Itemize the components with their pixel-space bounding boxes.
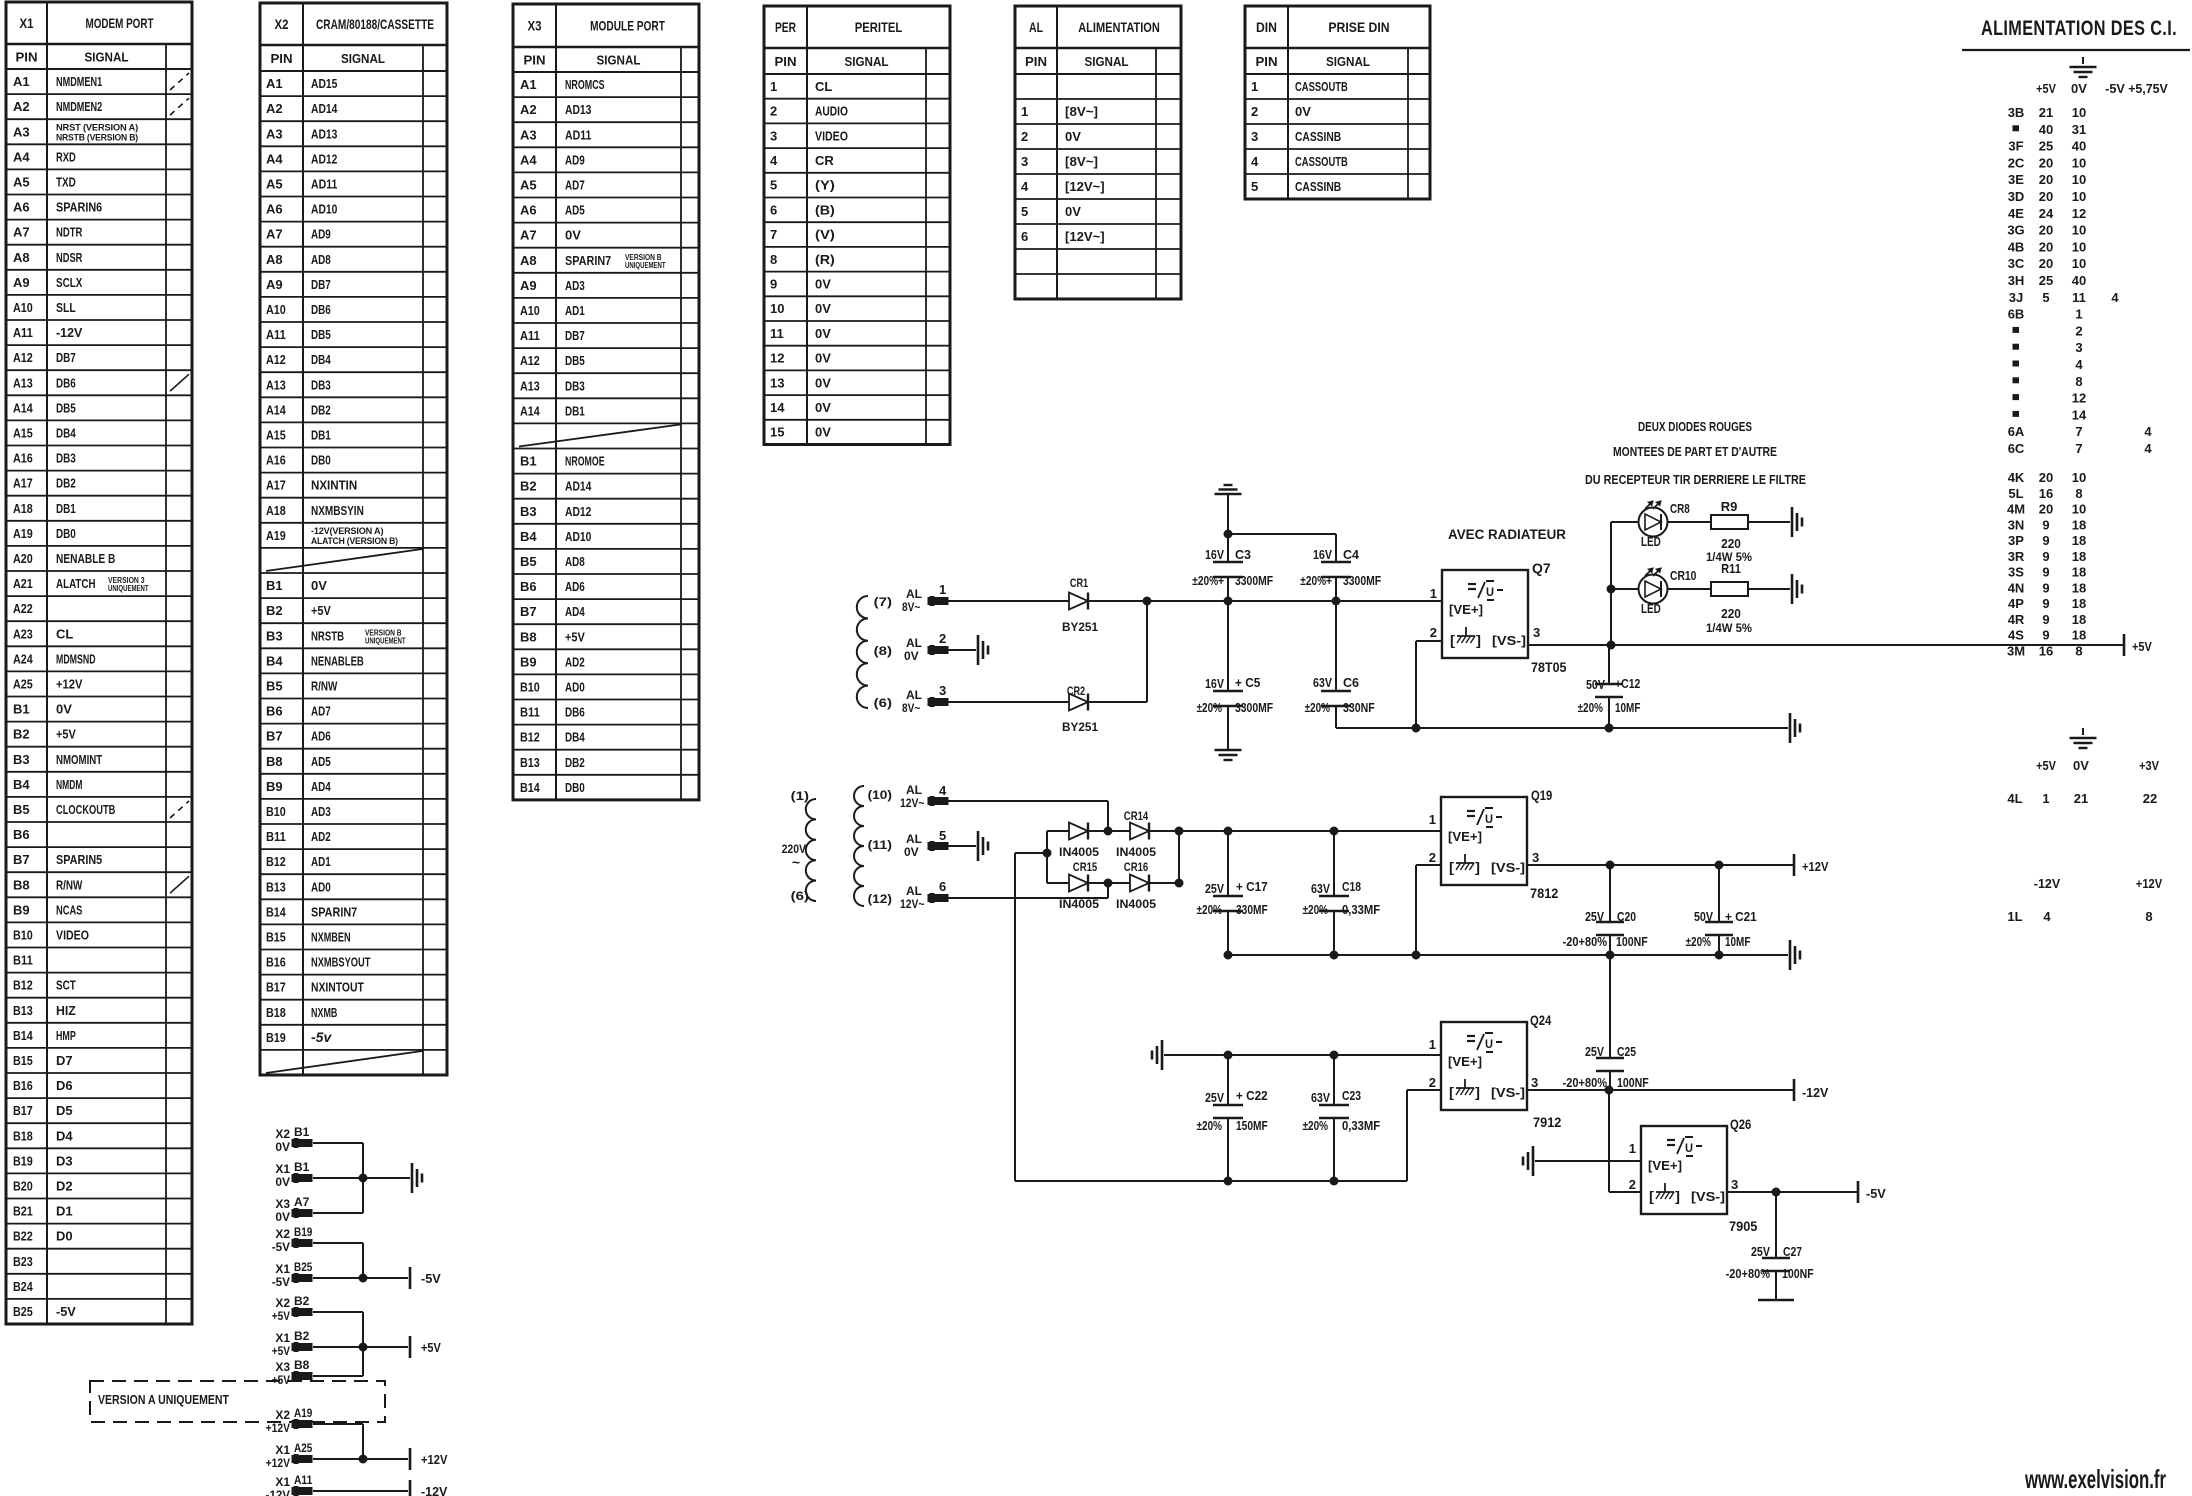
IC supply current list block 3 (4L / 1L rows) bbox=[2007, 758, 2162, 924]
svg-text:B7: B7 bbox=[13, 852, 30, 867]
svg-text:12: 12 bbox=[2072, 391, 2086, 406]
svg-text:1L: 1L bbox=[2007, 909, 2022, 924]
svg-text:0V: 0V bbox=[904, 649, 919, 663]
resistor R9 220 1/4W 5% bbox=[1706, 499, 1752, 564]
svg-text:+ C21: + C21 bbox=[1725, 910, 1757, 924]
capacitor C12 10MF 50V bbox=[1578, 645, 1641, 728]
svg-text:B1: B1 bbox=[294, 1160, 310, 1174]
junction -5V tie bbox=[359, 1274, 367, 1282]
svg-text:AD4: AD4 bbox=[311, 779, 331, 794]
svg-text:B4: B4 bbox=[13, 777, 30, 792]
svg-text:U: U bbox=[1485, 812, 1493, 826]
svg-text:A5: A5 bbox=[13, 174, 30, 189]
svg-text:0,33MF: 0,33MF bbox=[1342, 903, 1380, 917]
svg-text:10: 10 bbox=[2072, 155, 2086, 170]
svg-text:4: 4 bbox=[2144, 441, 2152, 456]
svg-text:MONTEES DE PART ET D'AUTRE: MONTEES DE PART ET D'AUTRE bbox=[1613, 444, 1777, 459]
svg-text:A11: A11 bbox=[520, 328, 540, 343]
svg-text:24: 24 bbox=[2039, 206, 2054, 221]
svg-text:A2: A2 bbox=[13, 99, 30, 114]
svg-text:A4: A4 bbox=[266, 151, 283, 166]
svg-text:A12: A12 bbox=[13, 350, 33, 365]
svg-text:AD13: AD13 bbox=[565, 102, 591, 117]
svg-text:~: ~ bbox=[792, 854, 800, 870]
svg-text:±20%: ±20% bbox=[1686, 935, 1711, 949]
svg-text:ALATCH: ALATCH bbox=[56, 576, 96, 591]
terminal -5V (connector tie) bbox=[410, 1267, 441, 1289]
svg-text:±20%+: ±20%+ bbox=[1300, 574, 1332, 588]
wire X3-A7 to 0V tie bbox=[313, 1178, 363, 1213]
svg-text:B4: B4 bbox=[520, 529, 537, 544]
svg-text:UNIQUEMENT: UNIQUEMENT bbox=[625, 261, 666, 270]
svg-text:10: 10 bbox=[2072, 223, 2086, 238]
label DEUX DIODES ROUGES bbox=[1638, 419, 1752, 434]
svg-text:B16: B16 bbox=[266, 955, 286, 970]
svg-text:2C: 2C bbox=[2008, 155, 2025, 170]
node X1-B1 0V stub bbox=[275, 1160, 312, 1189]
svg-text:CR8: CR8 bbox=[1670, 501, 1690, 516]
svg-text:B1: B1 bbox=[294, 1125, 310, 1139]
svg-text:25V: 25V bbox=[1585, 910, 1605, 924]
svg-text:20: 20 bbox=[2039, 223, 2053, 238]
svg-text:20: 20 bbox=[2039, 256, 2053, 271]
svg-text:B13: B13 bbox=[520, 755, 540, 770]
svg-text:3300MF: 3300MF bbox=[1235, 701, 1273, 715]
svg-text:-20+80%: -20+80% bbox=[1563, 935, 1607, 949]
svg-text:MDMSND: MDMSND bbox=[56, 651, 96, 666]
svg-text:-5V: -5V bbox=[1866, 1186, 1886, 1201]
svg-text:C25: C25 bbox=[1617, 1045, 1636, 1059]
svg-text:AD11: AD11 bbox=[565, 127, 591, 142]
svg-text:18: 18 bbox=[2072, 580, 2086, 595]
svg-text:B24: B24 bbox=[13, 1279, 33, 1294]
junction +12V tie bbox=[359, 1455, 367, 1463]
svg-text:8: 8 bbox=[2075, 486, 2082, 501]
svg-text:3300MF: 3300MF bbox=[1235, 574, 1273, 588]
svg-text:10MF: 10MF bbox=[1725, 935, 1751, 949]
svg-text:A4: A4 bbox=[520, 152, 537, 167]
svg-text:40: 40 bbox=[2039, 122, 2053, 137]
capacitor C21 10MF 50V bbox=[1686, 865, 1757, 955]
svg-text:[: [ bbox=[1449, 859, 1454, 875]
svg-text:C6: C6 bbox=[1343, 676, 1359, 690]
svg-text:X1: X1 bbox=[275, 1331, 290, 1345]
svg-text:150MF: 150MF bbox=[1236, 1119, 1268, 1133]
svg-text:0V: 0V bbox=[815, 351, 831, 366]
svg-text:+3V: +3V bbox=[2139, 758, 2159, 773]
junction bridge plus bottom bbox=[1175, 879, 1183, 887]
svg-text:330NF: 330NF bbox=[1343, 701, 1375, 715]
svg-text:+12V: +12V bbox=[56, 676, 83, 691]
svg-text:U: U bbox=[1485, 1037, 1493, 1051]
node X2-A19 +12V stub bbox=[266, 1406, 313, 1435]
svg-text:(8): (8) bbox=[874, 644, 892, 658]
svg-text:+C12: +C12 bbox=[1615, 677, 1640, 691]
svg-text:SCT: SCT bbox=[56, 978, 76, 993]
svg-text:B8: B8 bbox=[13, 877, 30, 892]
svg-text:16V: 16V bbox=[1313, 548, 1333, 562]
svg-text:A19: A19 bbox=[13, 526, 33, 541]
svg-text:1: 1 bbox=[2042, 791, 2049, 806]
svg-text:B5: B5 bbox=[266, 678, 283, 693]
svg-text:AD6: AD6 bbox=[311, 729, 331, 744]
svg-text:DB0: DB0 bbox=[565, 780, 585, 795]
svg-text:B6: B6 bbox=[266, 704, 283, 719]
svg-text:A19: A19 bbox=[266, 528, 286, 543]
wire CR10 to R11 bbox=[1668, 588, 1711, 590]
svg-text:CR2: CR2 bbox=[1067, 684, 1086, 698]
capacitor C18 0,33MF 63V bbox=[1303, 831, 1381, 955]
svg-text:DB2: DB2 bbox=[565, 755, 585, 770]
label DU RECEPTEUR TIR DERRIERE LE FILTRE bbox=[1585, 472, 1806, 487]
label MONTEES DE PART ET D AUTRE bbox=[1613, 444, 1777, 459]
svg-text:CR1: CR1 bbox=[1070, 576, 1089, 590]
svg-text:B14: B14 bbox=[520, 780, 540, 795]
svg-text:-12V: -12V bbox=[421, 1484, 448, 1496]
svg-text:R9: R9 bbox=[1721, 499, 1738, 514]
svg-text:+5V: +5V bbox=[2036, 81, 2056, 96]
capacitor C27 100NF 25V bbox=[1726, 1192, 1814, 1300]
svg-text:9: 9 bbox=[770, 276, 777, 291]
svg-text:16V: 16V bbox=[1205, 548, 1225, 562]
svg-text:A1: A1 bbox=[520, 77, 537, 92]
svg-text:AD0: AD0 bbox=[565, 679, 585, 694]
svg-text:0V: 0V bbox=[275, 1210, 290, 1224]
node X2-B1 0V stub bbox=[275, 1125, 312, 1154]
svg-text:A2: A2 bbox=[266, 101, 283, 116]
svg-text:B3: B3 bbox=[520, 504, 537, 519]
svg-text:-5V: -5V bbox=[421, 1271, 441, 1286]
svg-text:10: 10 bbox=[2072, 239, 2086, 254]
svg-text:4R: 4R bbox=[2008, 612, 2025, 627]
svg-text:11: 11 bbox=[770, 326, 784, 341]
svg-text:]: ] bbox=[1476, 632, 1481, 648]
svg-text:7: 7 bbox=[770, 227, 777, 242]
node AL-1 (8V~ tap, pin 7) bbox=[874, 582, 948, 614]
svg-text:LED: LED bbox=[1641, 534, 1661, 549]
svg-text:20: 20 bbox=[2039, 470, 2053, 485]
svg-text:B17: B17 bbox=[13, 1103, 33, 1118]
svg-text:3D: 3D bbox=[2008, 189, 2025, 204]
svg-text:B4: B4 bbox=[266, 653, 283, 668]
diode CR1 BY251 bbox=[1062, 576, 1098, 634]
svg-text:NCAS: NCAS bbox=[56, 902, 83, 917]
wire Q19 pin 2 to 0V rail bbox=[1416, 865, 1441, 955]
svg-text:1: 1 bbox=[1629, 1141, 1636, 1156]
diode CR14 IN4005 bbox=[1116, 809, 1179, 859]
svg-text:IN4005: IN4005 bbox=[1059, 899, 1100, 911]
svg-text:[VE+]: [VE+] bbox=[1648, 1158, 1682, 1173]
svg-text:Q7: Q7 bbox=[1532, 560, 1551, 576]
svg-text:A10: A10 bbox=[266, 302, 286, 317]
svg-text:NRSTB: NRSTB bbox=[311, 628, 344, 643]
svg-text:SPARIN6: SPARIN6 bbox=[56, 200, 102, 215]
dashed box VERSION A UNIQUEMENT bbox=[90, 1381, 385, 1422]
svg-text:PIN: PIN bbox=[1025, 54, 1047, 69]
junction bridge top mid bbox=[1088, 827, 1130, 835]
svg-text:3F: 3F bbox=[2008, 139, 2023, 154]
svg-text:DB0: DB0 bbox=[56, 526, 76, 541]
svg-text:ALIMENTATION: ALIMENTATION bbox=[1078, 19, 1160, 35]
svg-text:4: 4 bbox=[2111, 290, 2119, 305]
node X1-A11 -12V stub bbox=[266, 1473, 313, 1496]
svg-text:C3: C3 bbox=[1235, 548, 1251, 562]
capacitor C17 330MF 25V bbox=[1197, 831, 1268, 955]
terminal -12V bbox=[1794, 1079, 1829, 1101]
diode CR2 BY251 bbox=[1062, 684, 1098, 734]
svg-text:20: 20 bbox=[2039, 239, 2053, 254]
svg-text:0V: 0V bbox=[275, 1140, 290, 1154]
svg-text:18: 18 bbox=[2072, 533, 2086, 548]
svg-text:CR16: CR16 bbox=[1124, 860, 1149, 874]
svg-text:A6: A6 bbox=[13, 200, 30, 215]
svg-text:B8: B8 bbox=[520, 629, 537, 644]
svg-text:Q26: Q26 bbox=[1730, 1116, 1751, 1132]
wire CR8 to R9 bbox=[1668, 521, 1711, 523]
svg-text:±20%: ±20% bbox=[1197, 701, 1222, 715]
svg-text:7905: 7905 bbox=[1729, 1218, 1758, 1234]
svg-text:B9: B9 bbox=[266, 779, 283, 794]
svg-text:2: 2 bbox=[1430, 625, 1437, 640]
svg-text:]: ] bbox=[1675, 1188, 1680, 1204]
svg-text:CL: CL bbox=[56, 626, 73, 641]
svg-text:(6): (6) bbox=[874, 696, 892, 710]
svg-text:B15: B15 bbox=[266, 929, 286, 944]
svg-text:±20%: ±20% bbox=[1303, 1119, 1328, 1133]
svg-text:B12: B12 bbox=[266, 854, 286, 869]
svg-text:3: 3 bbox=[1021, 154, 1028, 169]
svg-text:220: 220 bbox=[1721, 606, 1741, 621]
svg-text:(Y): (Y) bbox=[815, 178, 835, 193]
svg-text:15: 15 bbox=[770, 425, 784, 440]
svg-text:]: ] bbox=[1475, 1084, 1480, 1100]
svg-text:DB4: DB4 bbox=[311, 352, 331, 367]
svg-text:CR: CR bbox=[815, 153, 834, 168]
svg-text:20: 20 bbox=[2039, 189, 2053, 204]
svg-text:0V: 0V bbox=[1295, 104, 1311, 119]
svg-text:AD4: AD4 bbox=[565, 604, 585, 619]
svg-text:1: 1 bbox=[770, 79, 777, 94]
svg-text:A6: A6 bbox=[520, 203, 537, 218]
svg-text:A2: A2 bbox=[520, 102, 537, 117]
svg-text:B1: B1 bbox=[13, 702, 30, 717]
junction +5V tie bbox=[359, 1343, 367, 1351]
IC supply current list block 2 (4K..3M) bbox=[2007, 470, 2086, 658]
svg-text:DB6: DB6 bbox=[311, 302, 331, 317]
svg-text:2: 2 bbox=[939, 631, 946, 646]
svg-text:21: 21 bbox=[2039, 105, 2053, 120]
ground stub after R9 bbox=[1792, 507, 1802, 537]
junction C18 top bbox=[1330, 827, 1338, 835]
node AL-2 (0V tap, pin 8) bbox=[874, 631, 948, 663]
svg-text:B8: B8 bbox=[266, 754, 283, 769]
junction C22 bottom bbox=[1224, 1177, 1232, 1185]
svg-text:AD15: AD15 bbox=[311, 76, 337, 91]
junction +5V rail / C12 / LED branch bbox=[1607, 641, 1615, 649]
svg-text:16: 16 bbox=[2039, 486, 2053, 501]
svg-text:330MF: 330MF bbox=[1236, 903, 1268, 917]
junction C17 bottom bbox=[1224, 951, 1232, 959]
svg-text:SIGNAL: SIGNAL bbox=[597, 53, 641, 68]
svg-text:DB6: DB6 bbox=[565, 705, 585, 720]
svg-text:[VE+]: [VE+] bbox=[1449, 602, 1483, 617]
svg-text:63V: 63V bbox=[1313, 676, 1333, 690]
svg-text:B18: B18 bbox=[13, 1128, 33, 1143]
connector X3 MODULE PORT pinout table bbox=[513, 4, 699, 800]
svg-text:22: 22 bbox=[2143, 791, 2157, 806]
svg-text:A22: A22 bbox=[13, 601, 33, 616]
svg-text:(12): (12) bbox=[868, 892, 892, 906]
transformer T1 secondary winding (8V) bbox=[857, 596, 868, 708]
svg-text:±20%: ±20% bbox=[1305, 701, 1330, 715]
svg-text:A10: A10 bbox=[13, 300, 33, 315]
svg-text:18: 18 bbox=[2072, 596, 2086, 611]
svg-text:100NF: 100NF bbox=[1616, 935, 1648, 949]
wire 0V return rail (upper section) bbox=[1336, 727, 1788, 729]
svg-text:AD14: AD14 bbox=[565, 479, 592, 494]
svg-text:20: 20 bbox=[2039, 155, 2053, 170]
svg-text:UNIQUEMENT: UNIQUEMENT bbox=[365, 636, 406, 645]
svg-text:5L: 5L bbox=[2008, 486, 2023, 501]
svg-text:VERSION A UNIQUEMENT: VERSION A UNIQUEMENT bbox=[98, 1392, 229, 1407]
junction -12V rail to Q26 branch bbox=[1605, 1086, 1613, 1094]
capacitor C3 3300MF 16V bbox=[1192, 534, 1273, 601]
svg-text:AD10: AD10 bbox=[311, 202, 337, 217]
svg-text:C23: C23 bbox=[1342, 1089, 1361, 1103]
svg-text:3G: 3G bbox=[2007, 223, 2024, 238]
svg-text:DEUX DIODES ROUGES: DEUX DIODES ROUGES bbox=[1638, 419, 1752, 434]
transformer T2 secondary winding (2x12V) bbox=[854, 786, 864, 906]
node X3-B8 +5V stub bbox=[272, 1358, 312, 1387]
wire X2-B1 to 0V tie bbox=[313, 1143, 363, 1178]
svg-text:B2: B2 bbox=[266, 603, 283, 618]
svg-text:2: 2 bbox=[1429, 850, 1436, 865]
svg-text:B19: B19 bbox=[294, 1225, 313, 1239]
svg-text:B15: B15 bbox=[13, 1053, 33, 1068]
svg-text:X2: X2 bbox=[275, 1227, 290, 1241]
wire -12V to Q26 pin 2 bbox=[1609, 1090, 1641, 1192]
svg-text:0V: 0V bbox=[275, 1175, 290, 1189]
scan scratch marks in X1 spare column bbox=[170, 73, 189, 893]
svg-text:SPARIN5: SPARIN5 bbox=[56, 852, 102, 867]
svg-text:AD13: AD13 bbox=[311, 126, 337, 141]
capacitor C23 0,33MF 63V bbox=[1303, 1055, 1381, 1181]
svg-text:3: 3 bbox=[1251, 129, 1258, 144]
svg-text:±20%: ±20% bbox=[1303, 903, 1328, 917]
svg-text:DB1: DB1 bbox=[565, 403, 585, 418]
svg-text:-12V: -12V bbox=[56, 325, 83, 340]
svg-text:SPARIN7: SPARIN7 bbox=[565, 253, 611, 268]
svg-text:A11: A11 bbox=[266, 327, 286, 342]
svg-text:AL: AL bbox=[906, 783, 922, 797]
svg-text:B7: B7 bbox=[520, 604, 537, 619]
svg-text:PIN: PIN bbox=[1256, 54, 1278, 69]
wire X1-B25 to -5V terminal bbox=[313, 1277, 408, 1279]
svg-text:B25: B25 bbox=[294, 1260, 313, 1274]
svg-text:DB5: DB5 bbox=[311, 327, 331, 342]
junction C18 bottom bbox=[1330, 951, 1338, 959]
svg-text:3: 3 bbox=[1731, 1177, 1738, 1192]
svg-text:9: 9 bbox=[2042, 628, 2049, 643]
svg-text:3: 3 bbox=[770, 128, 777, 143]
svg-text:[VS-]: [VS-] bbox=[1491, 1085, 1525, 1100]
svg-text:DB1: DB1 bbox=[311, 427, 331, 442]
svg-text:DB5: DB5 bbox=[565, 353, 585, 368]
wire AL pin3 to CR2 anode bbox=[948, 701, 1069, 703]
ground (below C5) bbox=[1215, 750, 1242, 760]
watermark www.exelvision.fr bbox=[2024, 1464, 2166, 1494]
svg-text:SIGNAL: SIGNAL bbox=[85, 50, 129, 65]
junction C23 bottom bbox=[1330, 1177, 1338, 1185]
svg-text:AD7: AD7 bbox=[311, 704, 331, 719]
wire CR2 cathode up to rectified node bbox=[1088, 601, 1147, 702]
label AVEC RADIATEUR bbox=[1448, 527, 1566, 542]
svg-text:-5V: -5V bbox=[56, 1304, 76, 1319]
svg-text:9: 9 bbox=[2042, 612, 2049, 627]
svg-text:PIN: PIN bbox=[775, 54, 797, 69]
svg-text:4S: 4S bbox=[2008, 628, 2024, 643]
svg-text:4P: 4P bbox=[2008, 596, 2024, 611]
svg-text:AD7: AD7 bbox=[565, 177, 585, 192]
svg-text:4: 4 bbox=[939, 783, 947, 798]
svg-text:D3: D3 bbox=[56, 1153, 73, 1168]
junction 0V tie bbox=[359, 1174, 367, 1182]
svg-text:25V: 25V bbox=[1585, 1045, 1605, 1059]
svg-text:4: 4 bbox=[1251, 154, 1259, 169]
svg-text:DB7: DB7 bbox=[56, 350, 76, 365]
svg-text:3S: 3S bbox=[2008, 565, 2024, 580]
svg-text:0V: 0V bbox=[815, 400, 831, 415]
svg-text:CLOCKOUTB: CLOCKOUTB bbox=[56, 802, 115, 817]
svg-text:A3: A3 bbox=[266, 126, 283, 141]
junction C20 bottom bbox=[1606, 951, 1614, 959]
svg-text:ALIMENTATION DES C.I.: ALIMENTATION DES C.I. bbox=[1981, 17, 2177, 40]
svg-text:X2: X2 bbox=[275, 1296, 290, 1310]
svg-text:B9: B9 bbox=[13, 902, 30, 917]
svg-text:AD3: AD3 bbox=[311, 804, 331, 819]
wire X1-A25 to +12V terminal bbox=[313, 1458, 408, 1460]
svg-text:B19: B19 bbox=[13, 1153, 33, 1168]
svg-text:±20%: ±20% bbox=[1578, 701, 1603, 715]
svg-text:1: 1 bbox=[2075, 307, 2082, 322]
svg-text:4M: 4M bbox=[2007, 502, 2025, 517]
svg-text:B12: B12 bbox=[520, 730, 540, 745]
svg-text:1: 1 bbox=[1430, 586, 1437, 601]
svg-text:+5V: +5V bbox=[2036, 758, 2056, 773]
svg-text:NXMBSYOUT: NXMBSYOUT bbox=[311, 955, 370, 970]
svg-text:0V: 0V bbox=[815, 276, 831, 291]
regulator Q24 7912 bbox=[1429, 1012, 1562, 1130]
svg-text:NXMBEN: NXMBEN bbox=[311, 929, 351, 944]
svg-text:4: 4 bbox=[2075, 357, 2083, 372]
svg-text:B17: B17 bbox=[266, 980, 286, 995]
svg-text:0V: 0V bbox=[815, 301, 831, 316]
LED CR8 bbox=[1639, 501, 1690, 549]
svg-text:DB7: DB7 bbox=[311, 277, 331, 292]
svg-text:A8: A8 bbox=[13, 250, 30, 265]
svg-text:50V: 50V bbox=[1586, 678, 1606, 692]
svg-text:B14: B14 bbox=[13, 1028, 33, 1043]
svg-text:[VS-]: [VS-] bbox=[1491, 860, 1525, 875]
svg-text:21: 21 bbox=[2074, 791, 2088, 806]
junction C27 top bbox=[1772, 1188, 1780, 1196]
svg-text:-12V: -12V bbox=[2034, 876, 2061, 891]
svg-text:A16: A16 bbox=[266, 453, 286, 468]
svg-text:VIDEO: VIDEO bbox=[815, 128, 848, 143]
svg-text:DB1: DB1 bbox=[56, 501, 76, 516]
svg-text:A1: A1 bbox=[266, 76, 283, 91]
svg-text:10: 10 bbox=[2072, 470, 2086, 485]
